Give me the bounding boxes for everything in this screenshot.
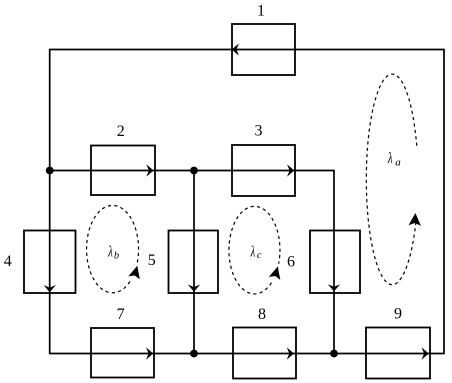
junction node at (194,170.5) xyxy=(190,167,198,175)
wire top (y=49.5, from left frame to right frame) xyxy=(50,49,444,51)
wire right frame (x=444) xyxy=(443,49,445,355)
label lambda_c xyxy=(250,242,262,261)
junction node at (194,353.5) xyxy=(190,350,198,358)
svg-text:5: 5 xyxy=(148,252,156,269)
box 8 xyxy=(233,328,296,379)
svg-text:1: 1 xyxy=(257,2,265,19)
arrow in branch 9 pointing right xyxy=(422,347,429,359)
svg-text:8: 8 xyxy=(258,306,266,323)
box 7 xyxy=(91,328,154,378)
label lambda_b xyxy=(108,242,120,261)
svg-text:2: 2 xyxy=(117,123,125,140)
svg-text:λ: λ xyxy=(108,242,113,260)
junction node at (49.7,170.5) xyxy=(46,167,54,175)
loop lambda_a arrow xyxy=(409,213,421,226)
box 9 xyxy=(366,328,430,379)
label lambda_a xyxy=(387,149,401,168)
box 4 xyxy=(24,231,76,294)
loop lambda_b dashed ellipse xyxy=(87,205,139,292)
svg-text:b: b xyxy=(114,251,119,262)
arrow in branch 6 pointing down xyxy=(328,284,340,291)
junction node at (334,353.5) xyxy=(330,350,338,358)
box 1 xyxy=(232,24,295,75)
box 3 xyxy=(232,145,295,196)
loop lambda_a dashed ellipse xyxy=(366,74,417,285)
arrow in branch 3 pointing right xyxy=(287,164,294,176)
svg-text:c: c xyxy=(257,250,262,261)
arrow in branch 5 pointing down xyxy=(188,285,200,292)
svg-text:3: 3 xyxy=(255,122,263,139)
svg-text:λ: λ xyxy=(387,149,392,167)
box 2 xyxy=(91,146,155,196)
box 6 xyxy=(310,231,360,294)
svg-text:a: a xyxy=(395,156,401,168)
svg-text:6: 6 xyxy=(287,254,295,271)
arrow on top wire pointing left (branch 1) xyxy=(232,43,239,55)
svg-text:4: 4 xyxy=(4,253,12,270)
arrow in branch 8 pointing right xyxy=(287,347,294,359)
loop lambda_b arrow xyxy=(128,266,139,280)
wire middle horizontal (y=170.5) xyxy=(50,170,334,172)
svg-text:λ: λ xyxy=(250,242,255,260)
wire left frame (x=49.7) xyxy=(49,49,51,355)
svg-text:9: 9 xyxy=(394,305,402,322)
wire bottom (y=353.5) xyxy=(50,353,444,355)
arrow in branch 2 pointing right xyxy=(146,164,153,176)
loop lambda_c arrow xyxy=(269,266,280,280)
arrow in branch 7 pointing right xyxy=(146,347,153,359)
arrow in branch 4 pointing down xyxy=(44,285,56,292)
svg-text:7: 7 xyxy=(117,306,125,323)
wire vertical mid-right (x=334) xyxy=(333,170,335,354)
box 5 xyxy=(169,231,219,294)
loop lambda_c dashed ellipse xyxy=(229,206,280,294)
wire vertical mid-left (x=194) xyxy=(193,171,195,354)
